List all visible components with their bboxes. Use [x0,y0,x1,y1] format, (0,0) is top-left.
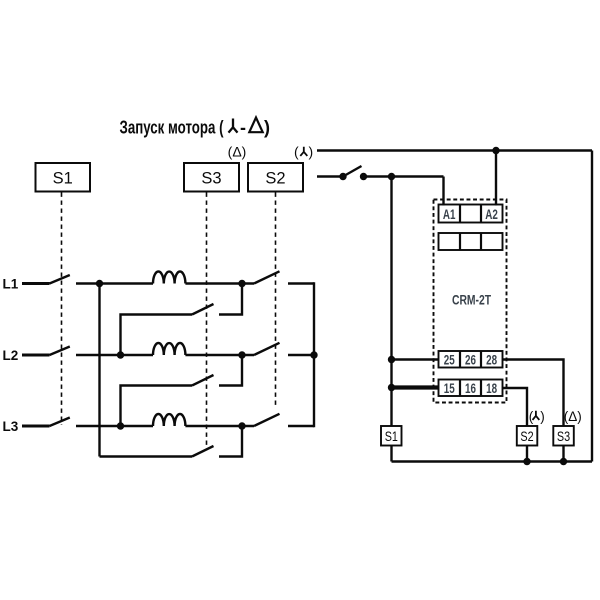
svg-text:): ) [264,118,270,138]
svg-text:(: ( [294,144,299,160]
svg-text:A2: A2 [485,206,498,222]
svg-text:S3: S3 [557,429,570,444]
relay output contact: right terminal [360,173,367,180]
junction node L2 input [117,351,124,358]
switch S2 contact pole L1 [254,271,280,283]
svg-text:28: 28 [486,352,497,368]
title: Запуск мотора (Y-D) [120,118,271,138]
wire W3 end to S2 contact [185,425,254,427]
terminal strip blank row [439,233,503,250]
wire pin 18 to S2 coil [503,388,528,426]
switch S3 contact pole 3 [192,446,214,457]
dashed control link S2 [275,193,277,409]
coil box S3 (bottom) [553,426,574,446]
svg-text:S1: S1 [385,429,398,444]
wire pin 28 to S3 coil [503,360,564,426]
svg-text:): ) [309,144,314,160]
switch S1 contact pole L2 [50,347,70,356]
wire star bus (S2 star point) [313,282,315,427]
wire L3 input [22,425,50,428]
svg-text:L3: L3 [3,419,19,434]
dashed control link S3 [206,193,208,446]
wire relay contact feed [317,175,343,177]
svg-text:A1: A1 [443,206,456,222]
wire delta feed from L1 input down [98,284,100,457]
svg-text:(: ( [529,409,534,424]
wire L2 to winding W2 [76,354,153,356]
junction node L3 input [117,422,124,429]
wire L3 to winding W3 [76,425,153,427]
svg-text:CRM-2T: CRM-2T [452,292,491,308]
label (Y) above S2 [294,144,313,160]
svg-text:(Δ): (Δ) [564,409,582,424]
winding W2 (motor coil L2) [153,343,185,355]
switch S1 contact pole L1 [50,275,70,284]
wire delta link W3-L1 left segment [100,455,193,457]
wire A2 drop [495,151,497,206]
switch S3 contact pole 2 [192,375,214,386]
junction node pin 15 feed [388,384,395,391]
contactor coil box S1 (top) [36,163,91,192]
svg-text:L1: L1 [3,277,19,292]
label (Y) above bottom S2 [529,409,545,424]
svg-text:S3: S3 [201,169,221,187]
switch S2 contact pole L2 [254,343,280,355]
relay output contact: left terminal [339,173,346,180]
dashed control link S1 [61,193,63,426]
svg-text:15: 15 [444,380,455,396]
wire W2 end to S2 contact [185,354,254,356]
junction node W3 end [238,422,245,429]
wire contact to A1 [364,175,444,177]
relay CRM-2T dashed outline U1 [434,200,507,403]
winding W1 (motor coil L1) [153,272,185,284]
coil box S2 (bottom) [517,426,538,446]
svg-text:26: 26 [465,352,476,368]
wire control vertical to S1 coil [390,177,392,427]
svg-text:Запуск мотора (: Запуск мотора ( [120,118,224,138]
svg-text:S2: S2 [520,429,533,444]
wire W1 end to S2 contact [185,282,254,284]
wire L1 to winding W1 [76,282,153,284]
wire L2 input [22,354,50,357]
wire to pin 15 (thick) [392,385,439,389]
wire L2 to star bus [288,354,314,356]
wire to pin 25 [392,358,439,360]
svg-text:16: 16 [465,380,476,396]
svg-text:S1: S1 [53,169,73,187]
wire A1 drop [442,177,444,206]
wire delta link W1-L2 left segment [121,315,193,356]
wire S1 coil to bottom bus [390,446,392,462]
junction node L1 input [96,280,103,287]
wire L1 to star bus [288,282,314,284]
wire delta link W2-L3 left segment [121,386,193,427]
wire S2 coil to bottom bus [526,446,528,462]
wire right bus down [591,151,593,462]
junction node control drop [388,173,395,180]
switch S1 contact pole L3 [50,418,70,427]
svg-text:18: 18 [486,380,497,396]
svg-text:(Δ): (Δ) [228,144,247,160]
wire delta link W1-L2: drop from W1 end [219,284,242,315]
svg-text:S2: S2 [265,169,285,187]
svg-text:L2: L2 [3,348,19,363]
junction node pin 25 feed [388,356,395,363]
terminal strip 15/16/18 [439,380,503,397]
junction node A2 tap [492,147,499,154]
terminal strip 25/26/28 [439,351,503,368]
wire L3 to star bus [288,425,314,427]
junction node W2 end [238,351,245,358]
junction node W1 end [238,280,245,287]
junction node S3 on bottom bus [560,458,567,465]
winding W3 (motor coil L3) [153,414,185,426]
switch S3 contact pole 1 [192,304,214,315]
junction node S2 on bottom bus [523,458,530,465]
coil box S1 (bottom) [381,426,402,446]
wire delta link W3-L1: drop from W3 end [219,426,242,457]
terminal strip A1/A2 [439,205,503,223]
junction node star bus / L2 [310,351,317,358]
contactor coil box S2 (top) [248,163,303,192]
svg-text:-: - [240,118,246,138]
wire S3 coil to bottom bus [562,446,564,462]
relay output contact: blade [343,166,362,177]
svg-text:25: 25 [444,352,455,368]
wire supply top (from Y label to right bus) [317,149,592,151]
switch S2 contact pole L3 [254,414,280,426]
contactor coil box S3 (top) [184,163,239,192]
svg-text:): ) [540,409,545,424]
wire L1 input [22,282,50,285]
wire bottom bus [392,460,593,462]
wire delta link W2-L3: drop from W2 end [219,355,242,386]
